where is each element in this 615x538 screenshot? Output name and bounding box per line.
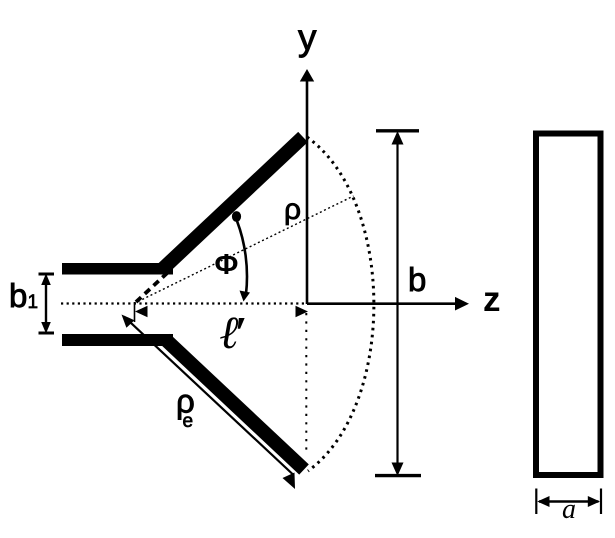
a dimension ticks: [535, 489, 537, 515]
dotted vertical line below origin: [305, 313, 307, 455]
svg-text:z: z: [483, 280, 501, 319]
phi arc start dot: [232, 211, 241, 222]
apex tick: [134, 302, 136, 322]
a right arrowhead: [588, 496, 600, 507]
a dimension line: [539, 500, 599, 503]
svg-text:b: b: [408, 261, 426, 298]
svg-text:Φ: Φ: [215, 249, 239, 281]
a left arrowhead: [537, 496, 549, 507]
svg-text:e: e: [183, 411, 194, 432]
svg-text:1: 1: [28, 292, 39, 313]
dotted aperture arc: [307, 137, 374, 471]
l-prime right arrowhead: [296, 306, 309, 317]
phi arc arrowhead: [240, 291, 251, 302]
b1 dimension arrow: [45, 277, 47, 330]
rho line from apex to arc: [134, 196, 354, 304]
b dimension arrow: [396, 134, 398, 473]
rho-e dimension line: [124, 317, 293, 475]
svg-text:ρ: ρ: [284, 193, 301, 226]
aperture rectangle: [536, 134, 601, 476]
rho-e upper arrowhead: [122, 315, 135, 328]
y-axis: [306, 80, 309, 304]
lower horn wall flare: [165, 339, 304, 470]
svg-text:b: b: [9, 277, 27, 314]
z-axis: [307, 302, 457, 305]
dotted horizontal center line: [61, 302, 306, 304]
rho-e lower arrowhead: [283, 473, 296, 490]
svg-text:y: y: [298, 17, 317, 58]
l-prime left arrowhead: [135, 306, 148, 317]
upper horn wall waveguide bar: [62, 263, 173, 275]
svg-text:a: a: [562, 494, 576, 525]
upper horn wall flare: [162, 137, 303, 270]
phi angle arc arrow: [237, 221, 247, 294]
dashed wall extension to apex: [136, 271, 169, 302]
svg-text:′: ′: [234, 307, 247, 358]
lower horn wall waveguide bar: [62, 334, 173, 346]
